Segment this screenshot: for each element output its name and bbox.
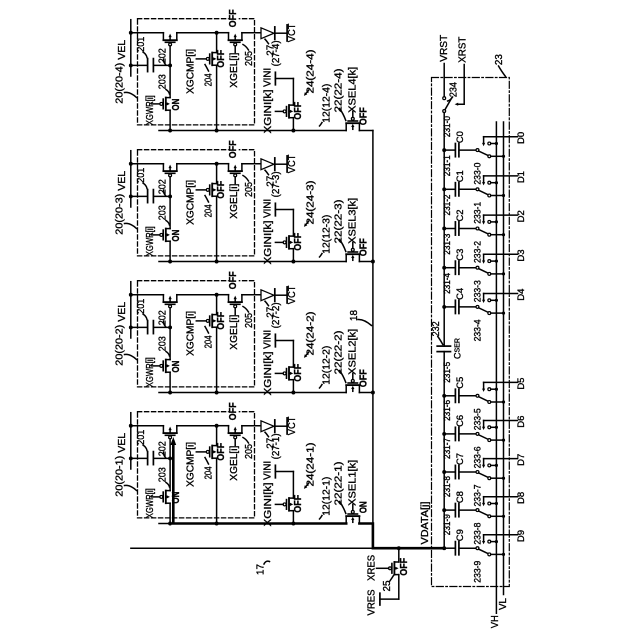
svg-text:VRES: VRES	[366, 590, 378, 616]
svg-text:XGINI[k]: XGINI[k]	[263, 482, 274, 526]
svg-text:20(20-4): 20(20-4)	[115, 63, 126, 104]
svg-text:OFF: OFF	[228, 271, 239, 289]
svg-text:XSEL1[k]: XSEL1[k]	[348, 460, 359, 506]
svg-text:(27-3): (27-3)	[271, 171, 282, 197]
svg-text:XSEL4[k]: XSEL4[k]	[348, 67, 359, 113]
svg-text:VRST: VRST	[438, 34, 450, 62]
svg-text:D9: D9	[516, 530, 527, 542]
svg-text:VINI: VINI	[262, 68, 274, 87]
svg-text:D7: D7	[516, 454, 527, 466]
svg-text:201: 201	[136, 299, 147, 314]
svg-text:22(22-1): 22(22-1)	[334, 462, 345, 506]
svg-text:203: 203	[158, 205, 169, 220]
svg-text:C5: C5	[455, 377, 466, 389]
svg-text:XGINI[k]: XGINI[k]	[263, 220, 274, 264]
svg-text:OFF: OFF	[359, 107, 370, 125]
svg-text:233-2: 233-2	[472, 241, 482, 263]
svg-text:23: 23	[494, 54, 505, 65]
svg-text:D5: D5	[516, 378, 527, 390]
svg-text:25: 25	[382, 580, 393, 591]
svg-text:VH: VH	[489, 615, 501, 628]
svg-text:205: 205	[244, 51, 255, 66]
svg-text:20(20-3): 20(20-3)	[115, 194, 126, 235]
svg-text:24(24-2): 24(24-2)	[306, 312, 317, 356]
svg-text:(27-1): (27-1)	[271, 433, 282, 459]
svg-text:OFF: OFF	[228, 402, 239, 420]
svg-text:OFF: OFF	[216, 443, 227, 461]
svg-text:VEL: VEL	[116, 40, 128, 60]
svg-text:OFF: OFF	[216, 181, 227, 199]
svg-text:OFF: OFF	[293, 495, 304, 513]
svg-text:233-3: 233-3	[472, 280, 482, 302]
svg-text:233-5: 233-5	[472, 408, 482, 430]
svg-text:OFF: OFF	[293, 364, 304, 382]
svg-text:C0: C0	[455, 131, 466, 143]
svg-text:ON: ON	[171, 361, 182, 373]
svg-text:233-6: 233-6	[472, 446, 482, 468]
svg-text:203: 203	[158, 336, 169, 351]
svg-text:205: 205	[244, 182, 255, 197]
svg-text:XGEL[i]: XGEL[i]	[228, 184, 240, 219]
svg-text:231-7: 231-7	[442, 438, 452, 459]
svg-text:XGWR[i]: XGWR[i]	[145, 357, 156, 387]
svg-text:VDATA[j]: VDATA[j]	[420, 501, 431, 544]
svg-text:VINI: VINI	[262, 461, 274, 480]
svg-text:C8: C8	[455, 491, 466, 503]
svg-text:22(22-2): 22(22-2)	[334, 331, 345, 375]
svg-text:201: 201	[136, 168, 147, 183]
svg-text:XGCMP[i]: XGCMP[i]	[184, 180, 196, 225]
svg-text:205: 205	[244, 313, 255, 328]
svg-text:20(20-1): 20(20-1)	[115, 456, 126, 497]
svg-text:OFF: OFF	[293, 102, 304, 120]
svg-text:OFF: OFF	[216, 50, 227, 68]
svg-text:C2: C2	[455, 210, 466, 222]
svg-text:XGWR[i]: XGWR[i]	[145, 488, 156, 518]
svg-text:ON: ON	[359, 501, 370, 513]
svg-text:OFF: OFF	[399, 558, 410, 576]
svg-text:233-1: 233-1	[472, 202, 482, 224]
svg-text:234: 234	[449, 82, 460, 97]
svg-text:XGWR[i]: XGWR[i]	[145, 226, 156, 256]
svg-text:C7: C7	[455, 453, 466, 465]
svg-text:231-4: 231-4	[442, 273, 452, 294]
svg-text:12(12-2): 12(12-2)	[321, 346, 332, 385]
svg-text:XGEL[i]: XGEL[i]	[228, 446, 240, 481]
svg-text:233-4: 233-4	[472, 319, 482, 341]
svg-text:VCT: VCT	[286, 23, 298, 42]
svg-text:D3: D3	[516, 249, 527, 261]
svg-text:201: 201	[136, 430, 147, 445]
svg-text:VEL: VEL	[116, 433, 128, 453]
svg-text:C9: C9	[455, 529, 466, 541]
svg-text:OFF: OFF	[293, 233, 304, 251]
svg-text:OFF: OFF	[216, 312, 227, 330]
svg-text:12(12-1): 12(12-1)	[321, 477, 332, 516]
svg-text:C6: C6	[455, 415, 466, 427]
svg-text:24(24-4): 24(24-4)	[306, 50, 317, 94]
svg-text:OFF: OFF	[359, 238, 370, 256]
svg-text:VCT: VCT	[286, 416, 298, 435]
svg-text:XGCMP[i]: XGCMP[i]	[184, 49, 196, 94]
svg-text:C4: C4	[455, 287, 466, 300]
svg-text:VINI: VINI	[262, 199, 274, 218]
svg-text:VEL: VEL	[116, 171, 128, 191]
svg-text:XGEL[i]: XGEL[i]	[228, 315, 240, 350]
svg-text:VEL: VEL	[116, 302, 128, 322]
svg-text:D6: D6	[516, 416, 527, 428]
svg-text:XGINI[k]: XGINI[k]	[263, 89, 274, 133]
svg-text:XRES: XRES	[366, 555, 378, 581]
svg-text:VCT: VCT	[286, 285, 298, 304]
svg-text:XSEL2[k]: XSEL2[k]	[348, 329, 359, 375]
svg-text:22(22-3): 22(22-3)	[334, 200, 345, 244]
svg-text:XSEL3[k]: XSEL3[k]	[348, 198, 359, 244]
svg-text:XRST: XRST	[456, 36, 468, 63]
svg-text:231-3: 231-3	[442, 234, 452, 255]
svg-text:XGWR[i]: XGWR[i]	[145, 95, 156, 125]
svg-text:204: 204	[203, 204, 214, 217]
svg-text:233-0: 233-0	[472, 163, 482, 185]
svg-text:204: 204	[203, 73, 214, 86]
svg-text:VINI: VINI	[262, 330, 274, 349]
svg-text:C1: C1	[455, 170, 466, 182]
svg-text:17: 17	[256, 564, 267, 575]
svg-text:12(12-3): 12(12-3)	[321, 215, 332, 254]
svg-text:233-9: 233-9	[472, 561, 482, 583]
svg-text:VCT: VCT	[286, 154, 298, 173]
svg-text:12(12-4): 12(12-4)	[321, 84, 332, 123]
svg-text:233-7: 233-7	[472, 485, 482, 507]
svg-text:D2: D2	[516, 210, 527, 222]
svg-text:22(22-4): 22(22-4)	[334, 69, 345, 113]
svg-text:233-8: 233-8	[472, 523, 482, 545]
svg-text:OFF: OFF	[228, 140, 239, 158]
svg-text:231-2: 231-2	[442, 195, 452, 216]
svg-text:XGEL[i]: XGEL[i]	[228, 53, 240, 88]
svg-text:231-0: 231-0	[442, 116, 452, 137]
svg-text:D8: D8	[516, 492, 527, 504]
svg-text:201: 201	[136, 37, 147, 52]
svg-text:XGCMP[i]: XGCMP[i]	[184, 442, 196, 487]
svg-text:231-6: 231-6	[442, 400, 452, 421]
svg-text:24(24-1): 24(24-1)	[306, 443, 317, 487]
svg-text:VL: VL	[497, 598, 509, 610]
svg-text:D4: D4	[516, 289, 527, 301]
svg-text:(27-2): (27-2)	[271, 302, 282, 328]
svg-text:231-5: 231-5	[442, 362, 452, 383]
svg-text:232: 232	[431, 321, 442, 336]
svg-text:OFF: OFF	[359, 369, 370, 387]
svg-text:231-1: 231-1	[442, 155, 452, 176]
svg-text:D1: D1	[516, 171, 527, 183]
svg-text:D0: D0	[516, 132, 527, 144]
svg-text:XGINI[k]: XGINI[k]	[263, 351, 274, 395]
svg-text:20(20-2): 20(20-2)	[115, 325, 126, 366]
svg-text:203: 203	[158, 467, 169, 482]
svg-text:204: 204	[203, 466, 214, 479]
svg-text:231-8: 231-8	[442, 476, 452, 497]
svg-text:XGCMP[i]: XGCMP[i]	[184, 311, 196, 356]
svg-text:C3: C3	[455, 249, 466, 261]
svg-text:205: 205	[244, 444, 255, 459]
svg-text:231-9: 231-9	[442, 514, 452, 535]
svg-text:24(24-3): 24(24-3)	[306, 181, 317, 225]
svg-text:OFF: OFF	[228, 9, 239, 27]
svg-text:ON: ON	[171, 230, 182, 242]
svg-text:203: 203	[158, 74, 169, 89]
svg-text:204: 204	[203, 335, 214, 348]
svg-text:ON: ON	[171, 99, 182, 111]
svg-text:(27-4): (27-4)	[271, 40, 282, 66]
